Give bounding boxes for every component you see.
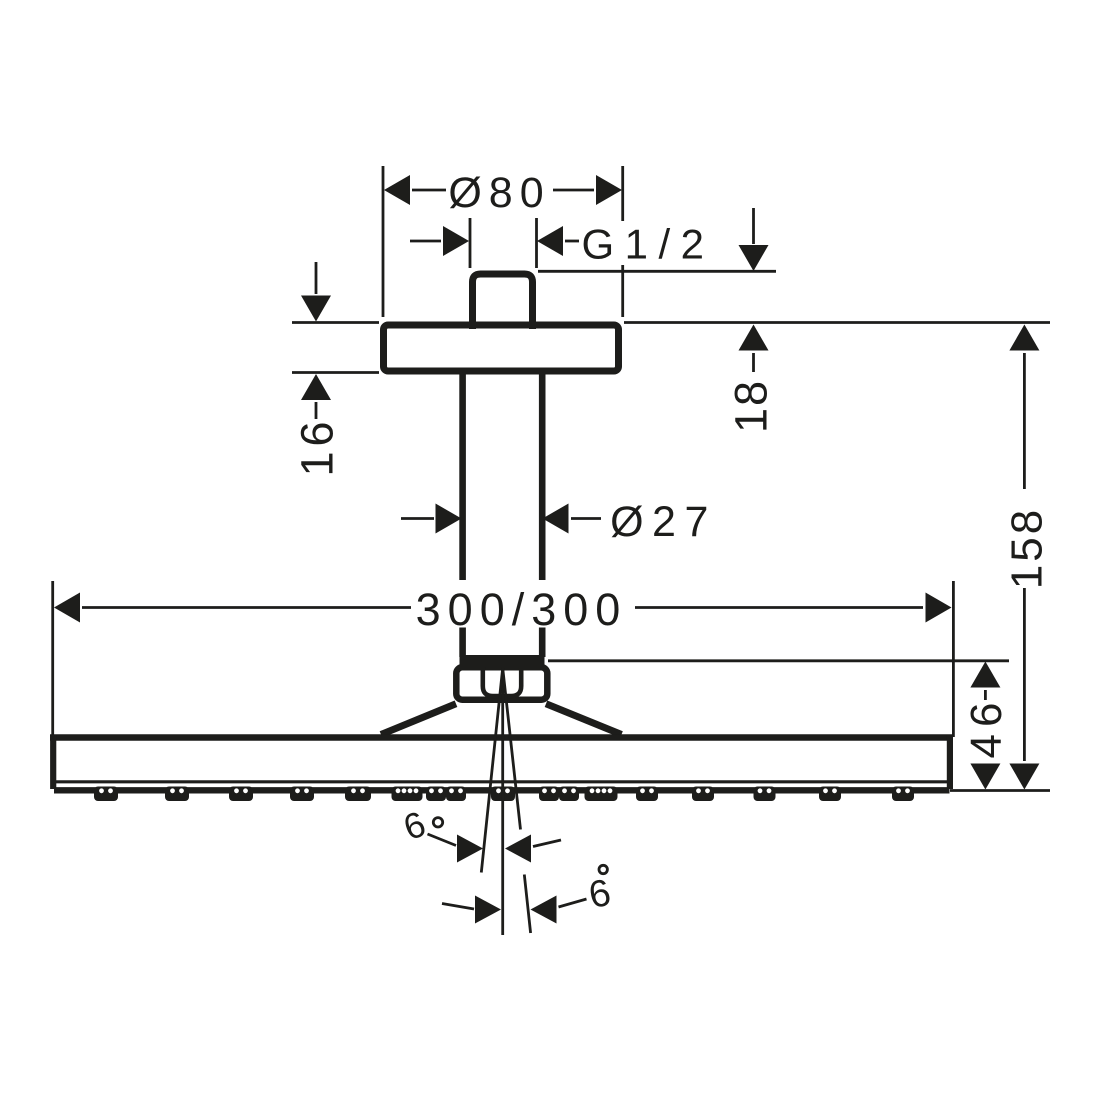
arrow 18 up	[739, 325, 769, 351]
svg-text:6: 6	[585, 872, 614, 917]
arrow 18 top down	[739, 245, 769, 271]
ref line 46 top	[548, 659, 1009, 662]
leader 6deg lower right	[559, 899, 587, 907]
ext line dia80 left	[382, 166, 385, 317]
ext line G12 right	[535, 218, 538, 268]
arrow line 18 up	[752, 353, 755, 372]
ext line 300 left	[51, 581, 54, 737]
spray axis 6deg left	[481, 668, 502, 873]
ref line flange top left	[292, 321, 379, 324]
ref line flange bottom left	[292, 371, 379, 374]
arrow 300 left	[54, 593, 80, 623]
arrowheads	[54, 175, 1039, 924]
svg-text:G1/2: G1/2	[581, 221, 714, 268]
svg-text:Ø80: Ø80	[448, 169, 550, 217]
ref line flange top right	[624, 321, 1050, 324]
ref line bottom right	[950, 789, 1050, 792]
arrow 16 down	[301, 296, 331, 322]
dim line dia80	[412, 189, 446, 192]
arrow 46 up	[970, 662, 1000, 688]
svg-text:Ø27: Ø27	[610, 498, 717, 546]
nozzles	[94, 787, 914, 802]
arrow dia80 right	[596, 175, 622, 205]
ext line G12 left	[469, 218, 472, 268]
head plate right edge	[947, 735, 953, 789]
cone left slope	[381, 704, 456, 735]
leader 6deg upper right	[533, 840, 561, 847]
arrow G12 left	[443, 226, 469, 256]
arrow line 16 up	[315, 402, 318, 419]
svg-text:16: 16	[292, 416, 343, 476]
pipe right wall	[539, 374, 546, 657]
arrow line 18 top	[752, 208, 755, 244]
leader G12 right	[565, 240, 579, 243]
arrow 6deg lower left	[475, 896, 501, 924]
swivel nut	[456, 667, 547, 699]
ref line connector top right	[538, 270, 776, 273]
svg-text:46: 46	[962, 696, 1011, 759]
arrow dia80 left	[384, 175, 410, 205]
center line vertical	[501, 668, 504, 935]
leader dia27 right	[571, 517, 601, 520]
dim line 300	[82, 606, 411, 609]
leader G12 left	[410, 240, 441, 243]
arrow 6deg upper left	[457, 835, 483, 863]
svg-text:300/300: 300/300	[416, 584, 628, 635]
head plate left edge	[50, 735, 56, 789]
arrow 158 up	[1009, 325, 1039, 351]
dim line 158	[1023, 353, 1026, 489]
leader 6deg upper left	[428, 834, 457, 846]
pipe end cap bar	[460, 655, 545, 666]
dimension texts	[292, 169, 1052, 917]
head plate top	[50, 734, 953, 740]
leader dia27 left	[401, 517, 434, 520]
ext line 300 right	[952, 581, 955, 737]
pipe left wall	[459, 374, 466, 657]
arrow 6deg upper right	[505, 835, 531, 863]
dimension thin lines	[53, 166, 1050, 909]
arrow line 16 down	[315, 262, 318, 294]
head plate inner bottom line	[56, 780, 947, 783]
dim line 46	[984, 690, 987, 700]
leader 6deg lower left	[442, 904, 474, 910]
spray axis 6deg right	[503, 668, 531, 933]
ball joint	[483, 667, 521, 696]
G1/2 connector stub	[473, 274, 533, 329]
ceiling flange plate	[384, 325, 619, 371]
arrow 158 down	[1009, 764, 1039, 790]
cone right slope	[546, 704, 622, 735]
arrow dia27 left	[436, 504, 462, 534]
arrow 46 down	[970, 764, 1000, 790]
arrow 300 right	[926, 593, 952, 623]
spray face strip	[54, 787, 950, 793]
ext line dia80 right	[621, 166, 624, 317]
arrow G12 right	[537, 226, 563, 256]
arrow 6deg lower right	[531, 896, 557, 924]
arrow dia27 right	[543, 504, 569, 534]
svg-text:158: 158	[1003, 507, 1052, 589]
svg-text:18: 18	[726, 379, 777, 433]
svg-text:6: 6	[398, 803, 431, 848]
arrow 16 up	[301, 374, 331, 400]
